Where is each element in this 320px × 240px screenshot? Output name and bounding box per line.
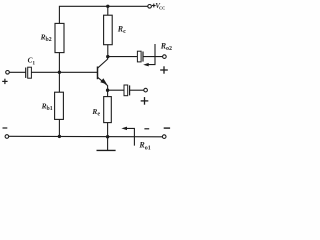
node bottom rail terminal right <box>162 135 166 139</box>
resistor Rb1 <box>55 92 64 119</box>
resistor Rc <box>104 15 113 45</box>
wire ground lead <box>107 137 109 151</box>
resistor Re <box>104 97 112 123</box>
label +Vcc <box>152 4 156 8</box>
node top rail junction <box>106 5 109 8</box>
polarity - mid <box>144 128 149 130</box>
wire top rail <box>59 6 147 23</box>
node output 1 terminal <box>144 88 148 92</box>
polarity + output 2 <box>160 66 168 73</box>
wire Rb2 bottom lead <box>58 53 60 73</box>
wire base <box>31 71 97 73</box>
wire collector output <box>108 56 138 58</box>
wire input lead <box>9 71 25 73</box>
capacitor C1 <box>26 67 32 78</box>
capacitor C2 <box>137 51 143 62</box>
node emitter junction <box>106 89 109 92</box>
svg-text:Rc: Rc <box>117 25 126 36</box>
node rail junction Re <box>106 135 109 138</box>
node +Vcc terminal <box>148 5 152 9</box>
wire Re bottom lead <box>107 123 109 137</box>
svg-text:Ro2: Ro2 <box>160 42 172 53</box>
wire emitter output <box>108 89 124 91</box>
svg-text:Rb2: Rb2 <box>40 33 52 43</box>
ground <box>97 149 116 151</box>
polarity + input <box>2 79 7 84</box>
wire Rc bottom lead <box>107 45 109 57</box>
Ro1 indicator arrow <box>121 127 134 146</box>
svg-text:C1: C1 <box>28 57 36 67</box>
wire Rb1 top lead <box>58 72 60 92</box>
node output 2 terminal <box>163 55 167 59</box>
polarity + output 1 <box>141 97 149 105</box>
node bottom rail terminal left <box>5 135 9 139</box>
polarity - right <box>164 127 170 129</box>
node rail junction Rb1 <box>58 135 61 138</box>
transistor Q1 <box>98 57 108 91</box>
svg-text:Re: Re <box>91 107 100 118</box>
node input terminal <box>6 71 10 75</box>
wire Re top lead <box>107 90 109 96</box>
wire Ce to output terminal <box>130 89 144 91</box>
svg-text:Rb1: Rb1 <box>41 102 53 112</box>
svg-text:Ro1: Ro1 <box>138 141 150 152</box>
resistor Rb2 <box>55 23 64 52</box>
polarity - bottom left <box>3 127 8 129</box>
Ro2 indicator arrow <box>143 44 155 66</box>
wire bottom rail <box>9 135 163 138</box>
svg-text:VCC: VCC <box>155 3 165 11</box>
wire Rb1 bottom lead <box>58 119 60 136</box>
capacitor Ce <box>124 85 130 96</box>
wire Rc top lead <box>107 6 109 15</box>
node collector junction <box>106 55 109 58</box>
wire C2 to output terminal <box>143 56 163 58</box>
node base junction <box>58 71 61 74</box>
